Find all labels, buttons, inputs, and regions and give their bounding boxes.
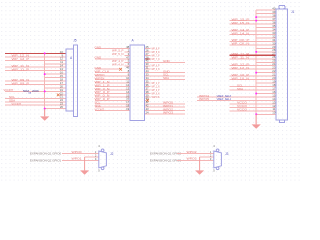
wire stub (U1 left pin 5) bbox=[125, 61, 131, 63]
wire (U1 right pin 45 net GND) bbox=[145, 61, 186, 63]
wire (right connector pin 34 net WP_14_P) bbox=[230, 30, 277, 32]
wire (right connector pin 13 net VCCO) bbox=[230, 103, 277, 105]
svg-text:WP_2_N: WP_2_N bbox=[152, 84, 160, 88]
wire (left connector pin 24 net SDA) bbox=[5, 101, 66, 103]
wire (right connector pin 17 net SDA) bbox=[230, 89, 277, 91]
wire (U1 left pin 9 net WPDO) bbox=[95, 75, 130, 77]
svg-text:EXPANSION-Q1 GPIO2: EXPANSION-Q1 GPIO2 bbox=[150, 151, 182, 155]
wire (right connector pin 11 net VCCO) bbox=[230, 110, 277, 112]
wire (left connector pin 12 net WP_12_P) bbox=[5, 59, 66, 61]
wire (right connector pin 40 to GND bus) bbox=[256, 9, 276, 11]
wire stub with no-connect (U1 right pin 40) bbox=[145, 99, 147, 101]
wire (left connector pin 18 net WP_09_N) bbox=[5, 80, 66, 82]
vertical bus wire (left connector GND bus) bbox=[44, 53, 46, 116]
wire (right connector pin 16 to GND bus) bbox=[256, 92, 276, 94]
svg-text:WP_09_P: WP_09_P bbox=[12, 81, 30, 85]
power arrow VSS (jack J3 ground) bbox=[199, 157, 201, 170]
wire (right connector pin 23 net WP_12_N) bbox=[230, 68, 277, 70]
svg-text:GND: GND bbox=[163, 59, 171, 63]
wire (U1 left pin 48 net GND) bbox=[95, 48, 130, 50]
svg-text:WP_12_N: WP_12_N bbox=[232, 66, 250, 70]
wire (right connector pin 10 to GND bus) bbox=[256, 113, 276, 115]
svg-text:VCCO: VCCO bbox=[237, 108, 248, 112]
power arrow VSS (left bus, pointing down) bbox=[44, 109, 46, 116]
wire (right connector pin 22 to GND bus) bbox=[256, 72, 276, 74]
wire (right connector pin 30 net WP_CK_N) bbox=[230, 44, 277, 46]
wire (right connector pin 38 to GND bus) bbox=[256, 16, 276, 18]
svg-text:26: 26 bbox=[60, 105, 64, 109]
wire (right connector pin 15 net WPO4) bbox=[197, 96, 276, 98]
junction (right bus) bbox=[255, 16, 257, 18]
wire stub (U1 left pin 6) bbox=[125, 65, 131, 67]
wire (right connector pin 36 net WP_15_N) bbox=[230, 23, 277, 25]
wire stub (U1 right pin 36) bbox=[145, 86, 151, 88]
wire (jack J2 sleeve to GND) bbox=[85, 156, 99, 158]
junction (left bus) bbox=[44, 73, 46, 75]
svg-text:WP_7_N: WP_7_N bbox=[152, 57, 160, 61]
wire (left connector pin 20 to GND bus) bbox=[45, 87, 66, 89]
wire (right connector pin 18 net SCL) bbox=[230, 86, 277, 88]
wire (right connector pin 19 to GND bus) bbox=[256, 82, 276, 84]
svg-text:VCCINT: VCCINT bbox=[95, 107, 105, 111]
wire (jack J3 tip, net WPO2) bbox=[177, 153, 214, 155]
wire (left connector pin 15 to GND bus) bbox=[45, 77, 66, 79]
svg-text:GND: GND bbox=[95, 45, 103, 49]
svg-text:VCCINT: VCCINT bbox=[12, 102, 22, 106]
power arrow VSS (right bus, pointing down) bbox=[255, 115, 257, 125]
svg-text:WP_4_N: WP_4_N bbox=[112, 62, 124, 66]
wire with no-connect (U1 left pin 46 net GND) bbox=[95, 68, 120, 70]
junction (right bus) bbox=[255, 51, 257, 53]
svg-text:WP_7_P: WP_7_P bbox=[152, 53, 160, 57]
wire (U1 right pin 34 net SDA) bbox=[145, 79, 186, 81]
wire (U1 right pin 41 net WPO0) bbox=[145, 103, 186, 105]
wire (jack J3 ring, net WPO3) bbox=[177, 159, 214, 161]
wire (right connector pin 27 net WP_11_P) bbox=[230, 54, 277, 56]
junction (left bus) bbox=[44, 52, 46, 54]
IC U1 body bbox=[130, 45, 145, 121]
wire (right connector pin 35 to GND bus) bbox=[256, 27, 276, 29]
svg-text:WP_14_N: WP_14_N bbox=[232, 31, 250, 35]
wire (U1 left pin 47 net GND) bbox=[95, 58, 130, 60]
wire (U1 left pin 11 net WP_1_N) bbox=[95, 82, 130, 84]
wire (right connector pin 32 to GND bus) bbox=[256, 37, 276, 39]
wire stub (U1 right pin 31) bbox=[145, 68, 151, 70]
junction (left bus) bbox=[44, 90, 46, 92]
wire (left connector pin 26 to GND bus) bbox=[45, 108, 66, 110]
wire (left connector pin 19 net VCCINT) bbox=[5, 90, 66, 92]
svg-text:VCCINT: VCCINT bbox=[4, 88, 14, 92]
svg-text:J2: J2 bbox=[110, 152, 114, 156]
wire (U1 right pin 42 net WPO1) bbox=[145, 106, 186, 108]
wire (right connector pin 33 net WP_14_N) bbox=[230, 33, 277, 35]
svg-text:24: 24 bbox=[146, 111, 150, 115]
wire (left connector pin 14 net WP_11_N) bbox=[5, 66, 66, 68]
connector J1 body bbox=[276, 5, 287, 122]
wire stub (U1 right pin 38) bbox=[145, 92, 151, 94]
jack J2 body bbox=[99, 149, 107, 170]
wire (left connector pin 21 net SCL) bbox=[5, 97, 66, 99]
wire (right connector pin 12 net VCCO) bbox=[230, 106, 277, 108]
jack J3 body bbox=[214, 149, 222, 170]
wire (U1 left pin 8 net WP_CLK) bbox=[95, 72, 130, 74]
svg-text:WP_15_N: WP_15_N bbox=[232, 21, 250, 25]
wire (jack J2 ring, net WPO1) bbox=[62, 159, 99, 161]
wire (U1 right pin 44 net GND) bbox=[145, 72, 186, 74]
wire (U1 right pin 33 net SCL) bbox=[145, 75, 186, 77]
svg-text:10: 10 bbox=[272, 111, 276, 115]
wire (left connector pin 9 net WP_12_N) bbox=[5, 56, 66, 58]
wire stub (U1 right pin 37) bbox=[145, 89, 151, 91]
wire (U1 left pin 14 net WP_3_P) bbox=[95, 92, 130, 94]
svg-text:SDA: SDA bbox=[163, 76, 169, 80]
wire stub (U1 right pin 39) bbox=[145, 96, 151, 98]
wire (left connector pin 10 net ) bbox=[5, 52, 66, 54]
wire stub (U1 right pin 25) bbox=[145, 48, 151, 50]
wire stub (U1 left pin 3) bbox=[125, 54, 131, 56]
wire stub (U1 right pin 27) bbox=[145, 54, 151, 56]
svg-text:WPO1: WPO1 bbox=[72, 157, 82, 161]
svg-text:WP_8_N: WP_8_N bbox=[152, 50, 160, 54]
wire (right connector pin 37 net WP_15_P) bbox=[230, 20, 277, 22]
svg-text:WP_10_N: WP_10_N bbox=[232, 76, 250, 80]
wire pin stub with no-connect (left connector pin 22) bbox=[60, 94, 66, 96]
wire (left connector pin 16 to GND bus) bbox=[45, 73, 66, 75]
wire (right connector pin 25 to GND bus) bbox=[256, 61, 276, 63]
svg-text:WPO2: WPO2 bbox=[187, 150, 197, 154]
svg-text:WP_9_N: WP_9_N bbox=[152, 91, 160, 95]
wire (U1 left pin 18 net SDA) bbox=[95, 106, 130, 108]
svg-text:WP_5_P: WP_5_P bbox=[112, 48, 124, 52]
svg-text:WP_11_P: WP_11_P bbox=[12, 67, 30, 71]
wire stub (U1 right pin 26) bbox=[145, 51, 151, 53]
wire (right connector pin 21 net WP_10_P) bbox=[230, 75, 277, 77]
junction (right bus) bbox=[255, 20, 257, 22]
wire (left connector pin 17 net WP_09_P) bbox=[5, 84, 66, 86]
svg-text:WP_8_P: WP_8_P bbox=[152, 46, 160, 50]
wire (right connector pin 20 net WP_10_N) bbox=[230, 79, 277, 81]
wire (U1 left pin 19 net VCCINT) bbox=[95, 110, 130, 112]
junction (right bus) bbox=[255, 113, 257, 115]
svg-text:WP_6_P: WP_6_P bbox=[152, 64, 160, 68]
wire (U1 left pin 13 net WP_3_N) bbox=[95, 89, 130, 91]
wire (right connector pin 24 net WP_12_P) bbox=[230, 65, 277, 67]
svg-text:WP_12_P: WP_12_P bbox=[12, 57, 30, 61]
no-connect X (U1 left) bbox=[119, 68, 122, 71]
svg-text:WP_CK_N: WP_CK_N bbox=[232, 42, 250, 46]
svg-text:WPO3: WPO3 bbox=[187, 157, 197, 161]
svg-text:WPO5: WPO5 bbox=[199, 97, 209, 101]
svg-text:WPCS: WPCS bbox=[152, 95, 160, 99]
wire (right connector pin 29 to GND bus) bbox=[256, 47, 276, 49]
wire (right connector pin 31 net WP_CK_P) bbox=[230, 40, 277, 42]
connector J5 body bbox=[66, 45, 78, 117]
svg-text:WP_6_N: WP_6_N bbox=[152, 67, 160, 71]
svg-text:WP_11_N: WP_11_N bbox=[232, 56, 250, 60]
wire (left connector pin 13 net WP_11_P) bbox=[5, 70, 66, 72]
svg-text:J1: J1 bbox=[291, 10, 295, 14]
svg-text:19: 19 bbox=[126, 107, 130, 111]
svg-text:SDA: SDA bbox=[237, 87, 243, 91]
svg-text:VREF_SEL1: VREF_SEL1 bbox=[217, 97, 232, 101]
wire (right connector pin 26 net WP_11_N) bbox=[230, 58, 277, 60]
wire (U1 left pin 16 net WP_0_P) bbox=[95, 99, 130, 101]
wire (U1 right pin 24 net WPO3) bbox=[145, 113, 186, 115]
svg-text:WP_9_P: WP_9_P bbox=[152, 88, 160, 92]
svg-text:WP_4_P: WP_4_P bbox=[112, 59, 124, 63]
wire stub (U1 left pin 2) bbox=[125, 51, 131, 53]
svg-text:EXPANSION-Q1 GPIO1: EXPANSION-Q1 GPIO1 bbox=[30, 158, 62, 162]
wire (right connector pin 39 to GND bus) bbox=[256, 13, 276, 15]
wire (jack J2 tip, net WPO0) bbox=[62, 153, 99, 155]
svg-text:EXPANSION-Q1 GPIO0: EXPANSION-Q1 GPIO0 bbox=[30, 151, 62, 155]
power arrow VSS (jack J2 ground) bbox=[84, 157, 86, 170]
wire stub (U1 right pin 28) bbox=[145, 58, 151, 60]
wire stub (U1 right pin 35) bbox=[145, 82, 151, 84]
svg-text:WPO3: WPO3 bbox=[163, 111, 173, 115]
svg-text:J5: J5 bbox=[73, 39, 77, 43]
wire (U1 right pin 43 net WPO2) bbox=[145, 110, 186, 112]
wire (left connector pin 11 to GND bus) bbox=[45, 63, 66, 65]
wire (jack J3 sleeve to GND) bbox=[200, 156, 214, 158]
svg-text:WP_5_N: WP_5_N bbox=[112, 52, 124, 56]
no-connect X (left connector) bbox=[57, 93, 60, 96]
wire (U1 left pin 12 net WP_1_P) bbox=[95, 86, 130, 88]
junction (right bus) bbox=[255, 92, 257, 94]
wire (U1 left pin 15 net WP_0_N) bbox=[95, 96, 130, 98]
svg-text:EXPANSION-Q1 GPIO3: EXPANSION-Q1 GPIO3 bbox=[150, 158, 182, 162]
vertical bus wire (right connector GND bus) bbox=[255, 10, 257, 124]
wire (U1 left pin 17 net SCL) bbox=[95, 103, 130, 105]
wire stub (U1 right pin 30) bbox=[145, 65, 151, 67]
svg-text:GND: GND bbox=[95, 56, 103, 60]
junction (right bus) bbox=[255, 72, 257, 74]
wire (left connector pin 23 net VCCINT) bbox=[5, 104, 66, 106]
wire (U1 left pin 10 net WPDI) bbox=[95, 79, 130, 81]
svg-text:200K: 200K bbox=[32, 89, 39, 93]
wire (right connector pin 28 to GND bus) bbox=[256, 51, 276, 53]
no-connect X (U1 right) bbox=[146, 99, 149, 102]
svg-text:J3: J3 bbox=[225, 152, 229, 156]
wire (right connector pin 14 net WPO5) bbox=[197, 99, 276, 101]
junction (left bus) bbox=[44, 108, 46, 110]
svg-text:WPO0: WPO0 bbox=[72, 150, 82, 154]
svg-text:WP_2_P: WP_2_P bbox=[152, 81, 160, 85]
